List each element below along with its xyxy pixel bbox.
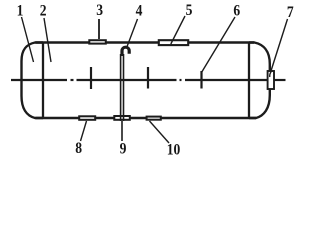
fitting inner mark <box>270 72 272 78</box>
leader 4 <box>127 19 138 48</box>
centerline (dash-dot axis) <box>11 79 286 81</box>
leader 6 <box>202 17 235 72</box>
level gauge fitting on right head (target of leader 7) <box>268 71 274 89</box>
svg-text:2: 2 <box>40 3 47 20</box>
svg-text:7: 7 <box>287 4 294 21</box>
tick mark A on axis <box>90 67 92 89</box>
nozzle flange N10 (bottom) <box>147 117 161 120</box>
svg-text:9: 9 <box>120 141 127 156</box>
leader 1 <box>22 17 34 62</box>
svg-text:10: 10 <box>167 142 181 156</box>
left head-shell seam <box>42 43 44 119</box>
tick mark B on axis <box>147 67 149 89</box>
shell bottom line <box>36 117 257 119</box>
right head-shell seam <box>248 43 250 119</box>
dip pipe right wall <box>123 54 125 116</box>
right head <box>249 43 270 119</box>
leader 9 <box>121 121 123 141</box>
svg-text:6: 6 <box>233 3 240 20</box>
svg-text:1: 1 <box>17 3 24 20</box>
svg-text:4: 4 <box>136 3 143 20</box>
nozzle flange N8 (bottom) <box>79 116 95 120</box>
left head <box>22 43 44 119</box>
leader 3 <box>98 19 100 39</box>
dip pipe through N9 <box>120 115 122 121</box>
leader 10 <box>150 121 170 143</box>
nozzle flange N9 (bottom, pipe outlet) <box>114 116 130 120</box>
svg-text:8: 8 <box>75 140 82 156</box>
leader 7 <box>271 19 288 72</box>
dip pipe left wall <box>120 54 122 116</box>
svg-text:5: 5 <box>186 2 193 19</box>
nozzle flange N3 (top) <box>89 40 106 43</box>
nozzle flange N5 (top, long) <box>159 40 188 45</box>
svg-text:3: 3 <box>96 2 103 19</box>
dip pipe hook (gooseneck) <box>122 47 129 56</box>
leader 2 <box>44 18 51 62</box>
leader 5 <box>171 16 185 44</box>
leader 8 <box>81 121 87 141</box>
tick mark C on axis (target of leader 6) <box>200 71 202 89</box>
shell top line <box>36 41 255 43</box>
